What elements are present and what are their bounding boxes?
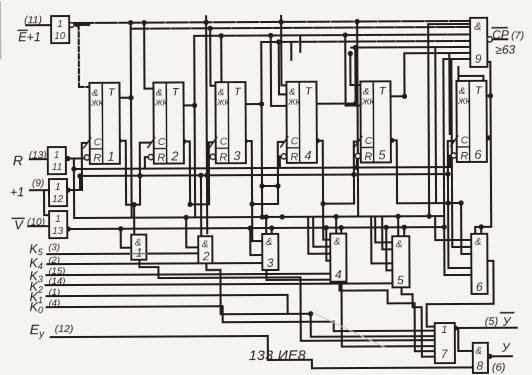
T flip-flop 6 R separator bbox=[457, 146, 470, 148]
wire: L3 drop x271 to FF4 bbox=[271, 35, 287, 106]
wire: OR7 output bbox=[455, 327, 517, 329]
wire: gate A6 output to OR7 bbox=[426, 261, 493, 327]
svg-text:11: 11 bbox=[52, 162, 62, 173]
node: chain A6 bbox=[445, 200, 450, 205]
node: R line x74 bbox=[71, 166, 76, 171]
node: FF2 Q bbox=[181, 139, 186, 144]
node: FF6 out on L1v bbox=[488, 93, 493, 98]
T flip-flop 1 C dynamic mark bbox=[84, 138, 91, 148]
wire: gate A4 output to OR7 bbox=[339, 281, 434, 351]
node: L2 x211 bbox=[208, 26, 213, 31]
node: box11 out bbox=[65, 156, 70, 161]
wire: gate 9 lower drop right bbox=[487, 62, 490, 138]
wire: K5 across gate A1 bbox=[130, 253, 147, 255]
svg-text:R: R bbox=[364, 151, 372, 163]
wire: FF6 top output bbox=[486, 95, 491, 97]
svg-text:ЖК: ЖК bbox=[154, 99, 168, 108]
wire: box 12 output to FF1 C bbox=[66, 143, 86, 190]
T flip-flop 6 C dynamic mark bbox=[451, 136, 458, 146]
wire: R hook FF6 bbox=[450, 156, 451, 168]
AND gate 8 box bbox=[473, 343, 488, 373]
node: M1 x262 bbox=[260, 214, 265, 219]
svg-text:6: 6 bbox=[476, 280, 483, 294]
wire: mid bus M1 bbox=[74, 216, 444, 218]
T flip-flop 1 R bubble bbox=[84, 155, 89, 160]
node: A2 riser bbox=[187, 202, 192, 207]
AND gate 5 box bbox=[392, 236, 409, 287]
svg-text:1: 1 bbox=[54, 150, 60, 161]
svg-text:C: C bbox=[291, 135, 299, 147]
T flip-flop 5 R separator bbox=[361, 146, 374, 148]
node: L4 x279 bbox=[276, 39, 281, 44]
wire: K4 line bbox=[47, 263, 262, 264]
svg-text:&: & bbox=[218, 87, 224, 98]
decorative bbox=[0, 1, 1, 59]
label Y overline bbox=[501, 312, 514, 314]
wire: input R(13) to box 11 bbox=[30, 158, 48, 160]
svg-text:R: R bbox=[93, 152, 101, 164]
svg-text:V: V bbox=[14, 217, 24, 232]
T flip-flop 5 box bbox=[360, 81, 390, 162]
wire: FF4 Q to FF5 C bbox=[318, 141, 358, 204]
svg-text:1: 1 bbox=[55, 214, 61, 225]
wire: box 10 output bbox=[73, 24, 89, 26]
wire: drop M2 into gate A5 top b bbox=[403, 227, 405, 237]
svg-text:ЖК: ЖК bbox=[361, 97, 375, 106]
wire: OR7 output branch to gate 8 bbox=[458, 328, 473, 351]
svg-text:6: 6 bbox=[474, 147, 482, 162]
svg-text:+1: +1 bbox=[10, 185, 24, 199]
buffer U10 box bbox=[51, 16, 69, 43]
node: Q6 branch bbox=[479, 224, 484, 229]
wire: drop M1 into gate A4 top bbox=[335, 217, 337, 235]
label E overline bbox=[18, 29, 27, 31]
svg-text:4: 4 bbox=[335, 268, 342, 282]
svg-text:C: C bbox=[94, 136, 102, 148]
node: L1-L2 branch bbox=[128, 20, 133, 25]
node: gate 8 output bbox=[487, 354, 492, 359]
node: M2-A1 bbox=[118, 226, 123, 231]
T flip-flop 6 divider bbox=[468, 81, 470, 162]
svg-text:R: R bbox=[157, 152, 165, 164]
svg-text:(7): (7) bbox=[511, 30, 524, 42]
wire: drop M1 to gate A6 a bbox=[435, 216, 471, 240]
wire: bus L3 bbox=[194, 34, 470, 35]
node: L3 x222 bbox=[219, 33, 224, 38]
wire: box 10 branch down bbox=[79, 25, 90, 87]
svg-text:ЖК: ЖК bbox=[457, 97, 471, 106]
node: C4 y186 bbox=[275, 183, 280, 188]
wire: branch from R down bbox=[73, 159, 75, 218]
svg-text:СР: СР bbox=[492, 28, 509, 42]
wire: chain branch into gate A1 top bbox=[133, 205, 135, 236]
OR gate 7 box bbox=[435, 323, 455, 363]
wire: L5 drop x356 bbox=[354, 48, 356, 104]
wire: drop M1 into gate A3 top bbox=[265, 217, 267, 235]
node: L6 x351 bbox=[348, 51, 353, 56]
svg-text:(1): (1) bbox=[49, 287, 61, 298]
wire: K2 line bbox=[46, 283, 393, 285]
node: C5 on line2 bbox=[351, 172, 356, 177]
svg-text:(11): (11) bbox=[24, 14, 42, 26]
node: box13 out bbox=[66, 226, 71, 231]
node: R5 hook bbox=[354, 165, 359, 170]
node: FF1 out on L2 bbox=[128, 95, 133, 100]
node: FF1 Q bbox=[117, 138, 122, 143]
svg-text:(4): (4) bbox=[49, 298, 61, 309]
wire: drop M1 to gate A5 d bbox=[371, 216, 392, 263]
svg-text:ЖК: ЖК bbox=[90, 99, 104, 108]
node: M1-A2 bbox=[184, 215, 189, 220]
T flip-flop 4 C dynamic mark bbox=[281, 137, 288, 147]
svg-text:R: R bbox=[219, 152, 227, 164]
svg-text:(5): (5) bbox=[485, 316, 499, 328]
svg-text:8: 8 bbox=[476, 359, 483, 373]
wire: K0 line bbox=[47, 305, 435, 333]
svg-text:У: У bbox=[501, 341, 511, 355]
wire: box 13 output bus M2 bbox=[66, 227, 444, 229]
node: FF3 out on L4 bbox=[259, 101, 264, 106]
T flip-flop 4 R separator bbox=[287, 147, 300, 149]
wire: L2 drop x211 to FF3 bbox=[210, 28, 215, 86]
wire: FF3 Q to FF4 C bbox=[246, 141, 284, 204]
svg-text:&: & bbox=[475, 237, 482, 248]
wire: chain branch to gate A6 bbox=[448, 203, 471, 268]
svg-text:(10): (10) bbox=[27, 217, 45, 228]
AND gate 3 box bbox=[262, 234, 278, 270]
wire: bus L2 bbox=[131, 27, 470, 29]
T flip-flop 5 divider bbox=[372, 81, 374, 162]
wire: drop M2 to gate A4 bbox=[326, 228, 330, 261]
svg-text:&: & bbox=[475, 346, 482, 357]
wire: L6 drop x351 to FF5 bbox=[350, 54, 360, 86]
wire: R hook FF5 bbox=[357, 156, 358, 169]
node: FF5 out on L6 bbox=[402, 94, 407, 99]
wire: input V(10) to box 13 bbox=[28, 225, 49, 227]
T flip-flop 2 box bbox=[153, 82, 183, 163]
wire: gate 8 output bbox=[488, 355, 512, 357]
wire: K1 line bbox=[47, 295, 288, 315]
node: A4 riser bbox=[320, 201, 325, 206]
AND gate 4 box bbox=[330, 234, 346, 282]
svg-text:5: 5 bbox=[397, 273, 404, 287]
node: line2 start bbox=[77, 173, 82, 178]
svg-text:ЖК: ЖК bbox=[216, 98, 230, 107]
node: FF4 out on L5 bbox=[353, 101, 358, 106]
T flip-flop 1 R separator bbox=[90, 148, 103, 150]
node: L3 x271 bbox=[268, 33, 273, 38]
wire: FF4 top output bbox=[317, 103, 356, 105]
node: A3 top bbox=[264, 214, 269, 219]
node: C2 on line2 bbox=[137, 173, 142, 178]
node: FF5 Q bbox=[389, 138, 394, 143]
wire: riser gate A3 in1 bbox=[252, 204, 262, 241]
node: A2 riser on line2 bbox=[198, 173, 203, 178]
node: L1 x358 bbox=[355, 19, 360, 24]
wire: R hook FF2 bbox=[145, 157, 148, 169]
AND gate 9 box bbox=[470, 18, 487, 67]
wire: FF1 Q to FF2 C bbox=[120, 141, 151, 205]
T flip-flop 3 C dynamic mark bbox=[210, 137, 217, 147]
svg-text:C: C bbox=[461, 134, 469, 146]
node: FF2 out on L3 bbox=[192, 103, 197, 108]
wire: drop L3 x301 bbox=[299, 35, 301, 51]
AND gate 2 box bbox=[198, 236, 212, 263]
svg-text:&: & bbox=[156, 88, 162, 99]
buffer U11 box bbox=[48, 147, 66, 174]
svg-text:R: R bbox=[290, 151, 298, 163]
buffer U12 box bbox=[49, 179, 67, 206]
wire: gate A5 output to OR7 bbox=[402, 287, 435, 357]
svg-text:3: 3 bbox=[267, 256, 274, 270]
wire: R hook FF3 bbox=[207, 156, 210, 158]
wire: E+1 top bus L1 bbox=[72, 21, 470, 23]
wire: gate A1 output to OR7 bbox=[139, 258, 434, 342]
wire: gate A2 output to OR7 bbox=[206, 262, 434, 337]
T flip-flop 2 R separator bbox=[154, 148, 167, 150]
wire: L3 drop x346 to FF5 bbox=[345, 35, 360, 106]
wire: input (11) to box 10 bbox=[26, 24, 51, 26]
node: L1 x282 bbox=[279, 19, 284, 24]
wire: drop M2 to gate A1 bbox=[121, 229, 132, 248]
wire: drop M1 to gate A2 bbox=[186, 217, 198, 247]
wire: L1 drop x358 bbox=[357, 22, 358, 217]
svg-text:&: & bbox=[459, 86, 465, 97]
wire: drop M2 into gate A3 top b bbox=[271, 228, 273, 235]
node: K1 joins bbox=[308, 311, 313, 316]
wire: K5 line bbox=[47, 252, 197, 255]
node: L1 x207 bbox=[204, 20, 209, 25]
wire: drop M2 to gate A5 bbox=[386, 227, 392, 270]
svg-text:(2): (2) bbox=[48, 255, 60, 266]
wire: bus L5 bbox=[351, 46, 470, 49]
node: L4 y186 bbox=[259, 183, 264, 188]
wire: hook below gate 9 to FF6 top bbox=[458, 67, 483, 81]
svg-text:2: 2 bbox=[202, 249, 210, 263]
wire: chain drop to gate A6 c bbox=[461, 203, 471, 254]
wire: riser gate A4 in1 bbox=[323, 204, 330, 240]
node: A5 top b bbox=[402, 225, 407, 230]
T flip-flop 3 R separator bbox=[216, 147, 229, 149]
T flip-flop 6 R bubble bbox=[451, 153, 456, 158]
svg-text:&: & bbox=[289, 87, 295, 98]
svg-text:&: & bbox=[334, 237, 341, 248]
wire: drop M2 to gate A3 bbox=[250, 228, 262, 255]
svg-text:R: R bbox=[460, 150, 468, 162]
node: M2-A3 bbox=[248, 225, 253, 230]
T flip-flop 3 box bbox=[215, 82, 245, 163]
svg-text:&: & bbox=[396, 239, 403, 250]
svg-text:13: 13 bbox=[52, 226, 64, 237]
T flip-flop 4 box bbox=[286, 82, 316, 163]
T flip-flop 2 C dynamic mark bbox=[148, 138, 155, 148]
wire: R distribution line bbox=[74, 167, 450, 169]
node: A4 top bbox=[334, 214, 339, 219]
svg-text:1: 1 bbox=[136, 246, 143, 260]
AND gate 9 output bubble bbox=[487, 37, 492, 42]
wire: bus L3 vertical bbox=[193, 36, 196, 217]
node: L5 x356 bbox=[353, 45, 358, 50]
T flip-flop 4 divider bbox=[298, 82, 300, 163]
wire: riser x450 bbox=[448, 53, 450, 134]
node: FF4 Q bbox=[315, 138, 320, 143]
wire: second distribution line bbox=[80, 174, 446, 176]
buffer U10 output bubble bbox=[69, 23, 74, 28]
wire: L4 branch to FF4 C hook bbox=[262, 185, 278, 187]
wire: input +1(9) to box 12 bbox=[30, 189, 49, 191]
wire: K3 line bbox=[46, 274, 330, 275]
svg-text:(14): (14) bbox=[48, 276, 65, 287]
wire: L1 drop to FF2 bbox=[144, 23, 153, 89]
AND gate 1 box bbox=[131, 235, 146, 260]
wire: FF6 Q to gate A6 top bbox=[475, 138, 492, 234]
wire: FF2 top output bbox=[183, 104, 195, 106]
wire: riser to gate 9 input 1 bbox=[428, 24, 471, 216]
wire: branch into gate A6 top b bbox=[480, 227, 482, 234]
svg-text:(9): (9) bbox=[32, 178, 44, 189]
wire: bus L4 bbox=[261, 41, 470, 42]
svg-text:2: 2 bbox=[170, 148, 179, 163]
wire: riser x436 bbox=[434, 47, 437, 203]
wire: drop L4 x292 bbox=[290, 42, 292, 60]
node: M2-A5 bbox=[384, 225, 389, 230]
wire: riser y175 line bbox=[79, 176, 81, 190]
T flip-flop 6 box bbox=[456, 81, 486, 162]
wire: FF1 top output bbox=[119, 97, 131, 99]
wire: Ey line bbox=[51, 335, 473, 370]
node: L3 x346 bbox=[343, 32, 348, 37]
wire: FF2 Q to FF3 C bbox=[184, 141, 213, 204]
label V overline bbox=[12, 217, 24, 219]
node: M2-A4 bbox=[324, 225, 329, 230]
svg-text:(3): (3) bbox=[48, 242, 60, 253]
svg-text:9: 9 bbox=[475, 52, 482, 66]
node: A1 top riser bbox=[131, 202, 136, 207]
svg-text:1: 1 bbox=[441, 324, 447, 336]
wire: drop M2 into gate A4 top b bbox=[340, 228, 342, 235]
wire: L3 drop x222 to FF3 bbox=[215, 36, 221, 95]
T flip-flop 2 R bubble bbox=[148, 154, 153, 159]
label CR overline bbox=[492, 27, 507, 29]
svg-text:(12): (12) bbox=[55, 323, 74, 335]
node: A5 top bbox=[396, 214, 401, 219]
svg-text:R: R bbox=[13, 152, 23, 168]
svg-text:ЖК: ЖК bbox=[287, 98, 301, 107]
wire: stub above L1 bbox=[206, 16, 281, 22]
T flip-flop 5 C dynamic mark bbox=[355, 136, 362, 146]
wire: L1 drop to gate A2 bbox=[206, 22, 207, 233]
wire: box 11 output to FF1 R bbox=[65, 157, 84, 159]
wire: bus L2 vertical bbox=[131, 23, 132, 218]
node: M1 x282 bbox=[280, 214, 285, 219]
node: M1 x429 bbox=[427, 214, 432, 219]
T flip-flop 4 R bubble bbox=[281, 154, 286, 159]
svg-text:&: & bbox=[474, 21, 481, 33]
wire: FF5 top output bbox=[391, 95, 405, 97]
node: R hook FF3 on line2 bbox=[204, 173, 209, 178]
wire: L4 drop x279 to FF4 bbox=[279, 42, 287, 95]
T flip-flop 5 R bubble bbox=[355, 153, 360, 158]
node: E+1 branch bbox=[75, 22, 80, 27]
wire: R hook FF4 bbox=[280, 156, 281, 168]
wire: FF5 Q chain bbox=[392, 140, 461, 203]
T flip-flop 3 divider bbox=[227, 82, 229, 163]
wire: drop M1 to gate A5 a bbox=[375, 216, 392, 242]
node: M2 x444 bbox=[442, 224, 447, 229]
node: A3 top b bbox=[269, 225, 274, 230]
T flip-flop 3 R bubble bbox=[210, 154, 215, 159]
wire: bus L4 vertical bbox=[260, 42, 263, 217]
node: L1-FF2 riser bbox=[142, 20, 147, 25]
node: chain x461 bbox=[458, 200, 463, 205]
node: A3 riser bbox=[249, 201, 254, 206]
svg-text:1: 1 bbox=[57, 19, 63, 30]
node: A4 top b bbox=[339, 225, 344, 230]
svg-text:У: У bbox=[502, 315, 512, 329]
wire: bus L7 to gate 9 bbox=[443, 59, 471, 275]
svg-text:12: 12 bbox=[52, 194, 64, 205]
svg-text:5: 5 bbox=[378, 147, 386, 162]
wire: bus L6 bbox=[404, 53, 470, 96]
wire: line2 drop into gate A2 top bbox=[200, 175, 202, 237]
wire: gate 9 output bbox=[490, 38, 507, 40]
svg-text:E+1: E+1 bbox=[18, 30, 41, 44]
wire: +1 branch down to box 13 bbox=[44, 190, 49, 215]
node: OR7 output bbox=[453, 325, 458, 330]
wire: drop M1 to gate A5 b bbox=[382, 216, 392, 249]
wire: long riser to gate A6 b bbox=[451, 59, 471, 247]
wire: drop M1 to gate A4 a bbox=[313, 217, 330, 247]
svg-text:(13): (13) bbox=[29, 150, 47, 161]
buffer U13 box bbox=[49, 211, 67, 238]
svg-text:4: 4 bbox=[304, 148, 311, 163]
svg-text:1: 1 bbox=[55, 182, 61, 193]
svg-text:≥63: ≥63 bbox=[495, 43, 515, 57]
T flip-flop 2 divider bbox=[165, 83, 167, 164]
AND gate 6 box bbox=[471, 234, 487, 294]
wire: drop M1 to gate A4 b bbox=[308, 217, 330, 254]
svg-text:133 ИЕ8: 133 ИЕ8 bbox=[249, 347, 306, 363]
node: box12 out bbox=[65, 187, 70, 192]
svg-text:&: & bbox=[363, 86, 369, 97]
T flip-flop 1 divider bbox=[101, 83, 103, 164]
wire: gate A3 output to OR7 bbox=[266, 269, 434, 347]
svg-text:C: C bbox=[158, 136, 166, 148]
svg-text:10: 10 bbox=[54, 31, 66, 42]
svg-text:1: 1 bbox=[107, 149, 114, 164]
svg-text:&: & bbox=[92, 88, 98, 99]
svg-text:C: C bbox=[220, 136, 228, 148]
wire: drop M1 into gate A5 top bbox=[397, 216, 399, 237]
node: FF3 Q bbox=[243, 138, 248, 143]
T flip-flop 1 box bbox=[89, 83, 119, 164]
svg-text:3: 3 bbox=[233, 148, 241, 163]
wire: M2 end to gate A6 bbox=[444, 274, 471, 276]
scan crease bbox=[314, 312, 385, 347]
wire: FF6 C hook bbox=[448, 141, 454, 203]
svg-text:(6): (6) bbox=[492, 362, 506, 374]
svg-text:C: C bbox=[365, 135, 373, 147]
wire: L1 drop x282 to FF4 bbox=[281, 22, 286, 86]
node: C6 on line2 bbox=[445, 171, 450, 176]
node: FF6 Q bbox=[486, 135, 491, 140]
svg-text:&: & bbox=[266, 237, 273, 248]
wire: FF3 top output bbox=[244, 103, 262, 105]
